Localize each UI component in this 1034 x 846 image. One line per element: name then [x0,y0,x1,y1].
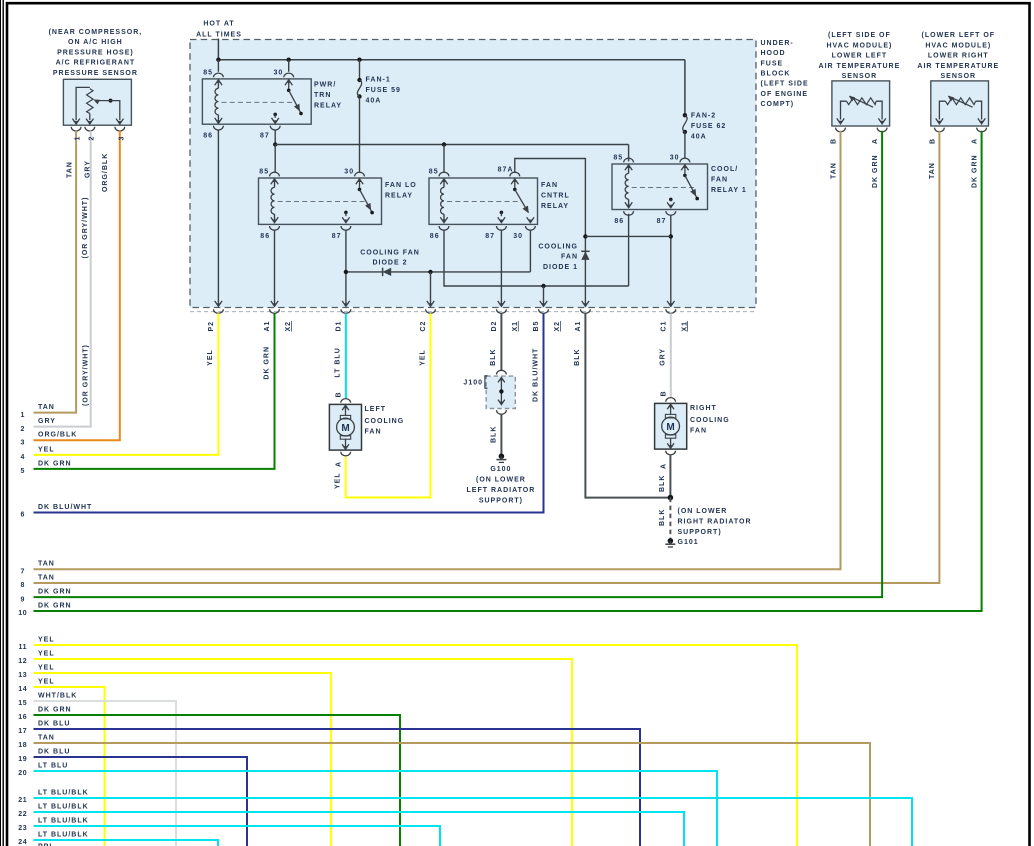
svg-text:YEL: YEL [419,349,426,366]
wire diode 2 run [346,271,531,273]
pin 85 PWR/TRN [214,73,224,77]
node bus junction 85 [216,58,220,62]
svg-text:TAN: TAN [67,161,74,178]
relay COOL/FAN RELAY 1 box [612,164,708,210]
pin 87A FAN CNTRL [510,172,520,176]
svg-text:CNTRL: CNTRL [541,192,570,199]
svg-text:LEFT: LEFT [365,406,387,413]
wire COOL/FAN 87 to C1 [670,215,672,305]
wire YEL C2 to left fan A [346,313,431,497]
wire row 14 YEL [34,687,105,846]
svg-text:B: B [336,391,343,397]
svg-text:COOLING: COOLING [538,243,578,250]
pin 87 PWR/TRN contact [273,113,277,117]
air temperature sensor box [832,81,890,126]
wire TAN right sensor B to row 8 [34,131,940,583]
svg-text:TAN: TAN [929,162,936,179]
svg-text:86: 86 [614,218,624,225]
svg-text:4: 4 [21,454,26,461]
svg-text:DK GRN: DK GRN [263,346,270,380]
wire BLK dashed to G101 [669,498,671,538]
relay FAN LO switch [356,179,363,184]
pin 3 sensor [115,127,125,131]
svg-text:DK GRN: DK GRN [38,706,72,713]
svg-text:X1: X1 [681,321,688,332]
wire YEL P2 to row 4 [34,313,219,455]
wire BLK D2 to J100 [500,313,502,370]
wire row 21 LT BLU/BLK [34,798,913,846]
svg-text:17: 17 [18,728,27,735]
svg-text:TAN: TAN [38,734,55,741]
svg-text:(ON LOWER: (ON LOWER [476,477,526,484]
svg-text:87: 87 [657,218,667,225]
wire row 12 YEL [34,659,573,846]
wire diode1 vertical [584,234,586,305]
svg-text:COMPT): COMPT) [761,101,795,108]
wire row 11 YEL [34,645,798,846]
node FAN CNTRL 85 tap [442,142,446,146]
svg-text:(LOWER LEFT OF: (LOWER LEFT OF [922,32,996,39]
wire row 13 YEL [34,673,332,846]
fuse FAN-2 FUSE 62 40A [683,113,687,117]
svg-text:FAN-1: FAN-1 [366,77,391,84]
svg-text:HOT AT: HOT AT [203,21,234,28]
svg-text:DK GRN: DK GRN [38,589,72,596]
relay COOL/FAN switch [681,165,688,170]
svg-text:G100: G100 [490,466,511,473]
svg-text:13: 13 [18,672,27,679]
pin D1 fuse block bottom [342,301,349,306]
svg-text:FAN: FAN [711,176,728,183]
svg-text:30: 30 [274,70,284,77]
wire ORG/BLK sensor pin3 to row 3 [34,131,120,441]
svg-text:2: 2 [21,426,26,433]
svg-text:30: 30 [344,169,354,176]
svg-text:40A: 40A [366,97,382,104]
svg-text:(LEFT SIDE: (LEFT SIDE [761,81,809,88]
svg-text:YEL: YEL [38,650,55,657]
wire FAN LO 86 to A1 [274,230,276,305]
svg-text:LT BLU: LT BLU [335,347,342,377]
svg-text:86: 86 [203,133,213,140]
connector face dashed line [190,311,756,313]
svg-text:30: 30 [513,233,523,240]
svg-text:11: 11 [18,644,27,651]
pin 1 sensor [71,127,81,131]
svg-text:(NEAR COMPRESSOR,: (NEAR COMPRESSOR, [49,29,143,36]
svg-text:87A: 87A [498,166,514,173]
svg-text:87: 87 [332,233,342,240]
pin B5 fuse block bottom [540,301,547,306]
node diode2 left [344,270,348,274]
svg-text:5: 5 [21,468,26,475]
wire LT BLU D1 to left fan B [345,313,347,398]
pin 87 FAN LO contact [344,211,348,215]
relay PWR/TRN coil [215,80,222,85]
pin 30 FAN CNTRL arrow [527,217,534,222]
svg-text:2: 2 [88,136,95,141]
svg-text:A: A [336,461,343,467]
svg-text:18: 18 [18,742,27,749]
svg-text:87: 87 [485,233,495,240]
svg-text:C1: C1 [660,321,667,332]
svg-text:DK GRN: DK GRN [971,154,978,188]
pin P2 fuse block bottom [215,301,222,306]
wire C2 drop [430,272,432,305]
svg-text:30: 30 [670,155,680,162]
svg-text:87: 87 [260,133,270,140]
node right fan ground junction [668,495,674,501]
svg-text:YEL: YEL [38,636,55,643]
svg-text:X2: X2 [285,321,292,332]
svg-text:LT BLU/BLK: LT BLU/BLK [38,789,89,796]
wire to FAN LO 85 [274,145,276,173]
wire row 18 TAN [34,743,871,846]
pin 85 FAN LO [270,172,280,176]
wire FAN CNTRL 87A loop [515,159,586,235]
svg-text:TAN: TAN [830,162,837,179]
wire BLK A1 to right fan [585,313,670,497]
svg-text:A: A [972,138,979,144]
svg-text:BLK: BLK [490,348,497,365]
wire row 20 LT BLU [34,771,718,846]
pin A1 fuse block bottom [582,301,589,306]
pin 30 PWR/TRN [284,73,294,77]
pin 87 FAN CNTRL [497,226,507,230]
wire BLK J100 to G100 [500,414,502,453]
wire row 15 WHT/BLK [34,701,177,846]
svg-text:SUPPORT): SUPPORT) [678,529,722,536]
svg-text:A1: A1 [264,321,271,332]
svg-text:1: 1 [75,136,82,141]
svg-text:40A: 40A [691,133,707,140]
svg-text:C2: C2 [420,321,427,332]
svg-text:LT BLU: LT BLU [38,762,68,769]
pin C1 fuse block bottom [667,301,674,306]
wiper arm [109,99,113,103]
wire TAN left sensor B to row 7 [34,131,841,570]
pin 85 COOL/FAN [624,158,634,162]
pin A sensor [877,128,887,132]
svg-text:ALL TIMES: ALL TIMES [196,32,242,39]
node bus junction 30 [287,58,291,62]
svg-text:COOLING FAN: COOLING FAN [360,249,420,256]
svg-text:G101: G101 [678,539,699,546]
svg-text:RELAY: RELAY [385,192,413,199]
node B5 tap [541,284,545,288]
svg-text:FAN: FAN [561,254,578,261]
wire row 23 LT BLU/BLK [34,826,441,846]
svg-text:DK GRN: DK GRN [38,602,72,609]
svg-text:FAN-2: FAN-2 [691,113,716,120]
svg-text:12: 12 [18,658,27,665]
pin 30 FAN CNTRL [526,226,536,230]
svg-text:ORG/BLK: ORG/BLK [38,432,77,439]
svg-text:FUSE 59: FUSE 59 [366,87,401,94]
svg-text:DK BLU: DK BLU [38,748,70,755]
svg-text:85: 85 [203,70,213,77]
svg-text:7: 7 [21,569,26,576]
wire FAN LO 87 to D1 [345,230,347,305]
pin B sensor [935,128,945,132]
wire row 17 DK BLU [34,729,641,846]
wire row 19 DK BLU [34,757,248,846]
svg-text:X1: X1 [512,321,519,332]
relay FAN LO RELAY box [259,178,382,224]
svg-text:A: A [872,138,879,144]
wire GRY C1 to right fan B [670,313,672,397]
relay FAN CNTRL coil [440,179,447,184]
svg-text:LT BLU/BLK: LT BLU/BLK [38,803,89,810]
sensor wiper arrow [850,96,874,107]
svg-text:ORG/BLK: ORG/BLK [102,153,109,192]
svg-text:85: 85 [259,169,269,176]
svg-text:D2: D2 [491,321,498,332]
pin 2 sensor [85,127,95,131]
wire hot feed into block [217,39,219,60]
svg-text:LT BLU/BLK: LT BLU/BLK [38,817,89,824]
svg-text:RIGHT: RIGHT [690,405,717,412]
svg-text:HVAC MODULE): HVAC MODULE) [925,42,991,49]
wire FAN CNTRL 87 to D2 [500,230,502,305]
wire bus to PWR/TRN 85 [217,60,219,72]
underhood fuse block (dashed box) [190,40,756,308]
svg-text:24: 24 [18,839,27,846]
pin 86 PWR/TRN [214,126,224,130]
pin A left fan [341,452,351,456]
svg-text:3: 3 [21,440,26,447]
relay PWR/TRN RELAY box [202,79,311,124]
svg-text:(OR GRY/WHT): (OR GRY/WHT) [82,197,89,259]
svg-text:85: 85 [429,169,439,176]
svg-text:10: 10 [18,610,27,617]
svg-text:BLK: BLK [574,348,581,365]
svg-text:D1: D1 [335,321,342,332]
svg-text:A: A [660,463,667,469]
svg-text:SENSOR: SENSOR [842,73,878,80]
svg-text:BLK: BLK [659,509,666,526]
pin J100 bottom [497,410,507,414]
wire row 16 DK GRN [34,715,401,846]
svg-text:YEL: YEL [335,472,342,489]
svg-text:PWR/: PWR/ [314,82,336,89]
node bus junction fan-1 [357,58,361,62]
svg-text:DK BLU: DK BLU [38,720,70,727]
svg-text:LEFT RADIATOR: LEFT RADIATOR [467,487,536,494]
svg-text:1: 1 [21,412,26,419]
svg-text:AIR TEMPERATURE: AIR TEMPERATURE [917,63,999,70]
svg-text:21: 21 [18,797,27,804]
node diode2 C2 tap [428,270,432,274]
svg-text:HOOD: HOOD [761,50,786,57]
svg-text:RELAY: RELAY [314,102,342,109]
svg-text:PRESSURE SENSOR: PRESSURE SENSOR [53,70,138,77]
pin 86 FAN LO [270,226,280,230]
motor RIGHT COOLING FAN [655,403,687,449]
svg-text:9: 9 [21,596,26,603]
svg-text:ON A/C HIGH: ON A/C HIGH [68,39,123,46]
svg-text:LOWER LEFT: LOWER LEFT [832,53,888,60]
fuse FAN-1 FUSE 59 40A [357,78,361,82]
wire DK BLU/WHT B5 to row 6 [34,313,544,512]
svg-text:19: 19 [18,756,27,763]
svg-text:COOLING: COOLING [690,417,730,424]
wire B5 drop [543,286,545,305]
border frame [0,0,2,846]
splice J100 box [486,376,515,408]
svg-text:FUSE 62: FUSE 62 [691,123,726,130]
svg-text:A1: A1 [575,321,582,332]
pin 86 COOL/FAN [624,211,634,215]
svg-text:B: B [831,138,838,144]
svg-text:DIODE 1: DIODE 1 [543,264,578,271]
svg-text:COOLING: COOLING [365,418,405,425]
svg-text:FAN LO: FAN LO [385,182,417,189]
relay FAN LO coil [271,179,278,184]
svg-text:DK GRN: DK GRN [38,460,72,467]
diode COOLING FAN DIODE 1 [581,250,589,252]
svg-text:22: 22 [18,811,27,818]
wire bus to FAN-1 fuse [359,60,361,80]
wire BLK right fan A to ground node [669,455,671,497]
svg-text:FAN: FAN [365,429,382,436]
svg-text:UNDER-: UNDER- [761,40,794,47]
pin B sensor [836,128,846,132]
relay FAN LO dashed link [278,201,365,203]
svg-text:BLOCK: BLOCK [761,70,791,77]
pin 87 PWR/TRN [270,126,280,130]
svg-text:BLK: BLK [659,475,666,492]
sensor resistor circuit [939,101,945,119]
svg-text:85: 85 [613,155,623,162]
svg-text:15: 15 [18,700,27,707]
svg-text:FUSE: FUSE [761,60,784,67]
svg-text:OF ENGINE: OF ENGINE [761,91,809,98]
svg-text:P2: P2 [208,321,215,332]
pin A1 fuse block bottom [271,301,278,306]
wire FAN CNTRL 86 down [444,230,629,286]
svg-text:LT BLU/BLK: LT BLU/BLK [38,831,89,838]
svg-text:TAN: TAN [38,404,55,411]
diode COOLING FAN DIODE 2 [382,268,384,276]
svg-text:YEL: YEL [38,664,55,671]
relay FAN CNTRL RELAY box [429,178,538,224]
svg-text:DIODE 2: DIODE 2 [372,260,407,267]
svg-text:BLK: BLK [490,426,497,443]
svg-text:A/C REFRIGERANT: A/C REFRIGERANT [56,60,136,67]
splice J100 internals [498,377,505,382]
pin D2 fuse block bottom [498,301,505,306]
svg-text:FAN: FAN [690,428,707,435]
wire DK GRN right sensor A to row 10 [34,131,982,611]
wire bus to PWR/TRN 30 [288,60,290,72]
svg-text:COOL/: COOL/ [711,166,738,173]
svg-text:B: B [929,138,936,144]
wire row 22 LT BLU/BLK [34,812,685,846]
svg-text:RELAY 1: RELAY 1 [711,187,747,194]
svg-text:GRY: GRY [38,418,56,425]
relay COOL/FAN dashed link [632,187,697,189]
motor LEFT COOLING FAN [329,404,361,450]
wire FAN-1 fuse to FAN LO 30 [359,97,361,173]
pin B right fan [666,398,676,402]
svg-text:GRY: GRY [660,348,667,366]
wire GRY sensor pin2 to row 2 [34,131,91,427]
A/C refrigerant pressure sensor box [63,79,131,125]
svg-text:J100: J100 [463,380,483,387]
svg-text:M: M [666,422,674,433]
pin 30 COOL/FAN [680,158,690,162]
svg-text:AIR TEMPERATURE: AIR TEMPERATURE [819,63,901,70]
pin A sensor [977,128,987,132]
pin 85 FAN CNTRL [439,172,449,176]
svg-text:B5: B5 [533,321,540,332]
wire PWR/TRN 87 down [274,130,276,145]
wire COOL/FAN 86 down [628,214,630,286]
sensor wiper arrow [948,96,972,107]
node 87 branch [273,142,277,146]
pin A right fan [666,451,676,455]
svg-text:X2: X2 [554,321,561,332]
svg-text:(LEFT SIDE OF: (LEFT SIDE OF [828,32,891,39]
svg-text:TAN: TAN [38,574,55,581]
wire diode1 to COOL/FAN 87 [585,235,670,237]
relay PWR/TRN dashed link [222,101,294,103]
relay COOL/FAN coil [625,165,632,170]
svg-text:FAN: FAN [541,182,558,189]
wire 87 bus to relays 85 [275,144,628,146]
svg-text:8: 8 [21,582,26,589]
pin 87 COOL/FAN contact [669,198,673,202]
node diode1 top [583,234,587,238]
svg-text:YEL: YEL [38,678,55,685]
ground G100 [499,453,505,459]
svg-text:DK BLU/WHT: DK BLU/WHT [532,348,539,402]
wire DK GRN left sensor A to row 9 [34,131,883,597]
svg-text:WHT/BLK: WHT/BLK [38,692,77,699]
svg-text:SUPPORT): SUPPORT) [479,497,523,504]
wire TAN sensor pin1 to row 1 [34,131,77,413]
svg-text:LOWER RIGHT: LOWER RIGHT [928,53,989,60]
node diode1 to 87 [669,234,673,238]
svg-text:YEL: YEL [38,446,55,453]
svg-text:M: M [341,423,349,434]
svg-text:20: 20 [18,770,27,777]
pin J100 top [497,370,507,374]
svg-text:(OR GRY/WHT): (OR GRY/WHT) [83,344,90,406]
svg-text:86: 86 [430,233,440,240]
pin 30 FAN LO [355,172,365,176]
svg-text:86: 86 [260,233,270,240]
svg-text:14: 14 [18,686,27,693]
pin 86 FAN CNTRL [439,226,449,230]
air temperature sensor box [931,81,989,126]
svg-text:16: 16 [18,714,27,721]
svg-text:B: B [660,390,667,396]
relay PWR/TRN switch [285,80,292,85]
resistor element [87,89,93,114]
svg-text:SENSOR: SENSOR [941,73,977,80]
ground G101 [668,538,674,544]
svg-text:23: 23 [18,825,27,832]
pin 87 COOL/FAN [666,211,676,215]
svg-text:3: 3 [118,136,125,141]
wire row 24 LT BLU/BLK [34,840,219,846]
wire power bus [218,59,685,61]
pin B left fan [341,399,351,403]
wire DK GRN A1 to row 5 [34,313,275,469]
relay FAN CNTRL switch [511,179,518,184]
